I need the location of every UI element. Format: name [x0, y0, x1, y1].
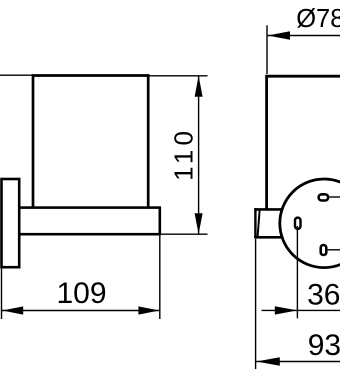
svg-text:110: 110: [169, 127, 199, 181]
svg-text:109: 109: [56, 277, 106, 310]
svg-text:93: 93: [308, 329, 340, 362]
svg-text:36: 36: [307, 279, 340, 312]
svg-text:Ø78: Ø78: [296, 5, 340, 33]
